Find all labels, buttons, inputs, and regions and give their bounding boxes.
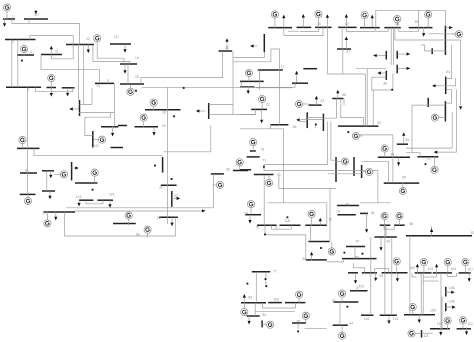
- wire: wire 12-16b: [83, 45, 85, 105]
- svg-text:111: 111: [424, 334, 429, 338]
- generator G100: [393, 258, 400, 273]
- load bus101 arrow: [387, 317, 390, 325]
- generator G28: [125, 212, 132, 225]
- load bus1 arrow: [3, 18, 6, 27]
- bus 15: [120, 83, 144, 85]
- svg-text:79: 79: [336, 210, 340, 214]
- wire: wire 23-64b: [328, 173, 362, 175]
- bus 106 (vertical): [445, 287, 447, 297]
- bus 111b (vertical): [421, 330, 423, 337]
- bus 61 (vertical): [444, 26, 446, 55]
- bus 49: [375, 236, 397, 238]
- load bus19 arrow: [152, 127, 155, 136]
- junction dot: [425, 163, 427, 165]
- generator G94: [339, 325, 346, 339]
- bus 95: [362, 272, 377, 274]
- bus 56: [384, 27, 401, 29]
- wire: wire 23-69: [331, 122, 336, 161]
- generator G76: [308, 210, 315, 225]
- bus 85: [285, 302, 306, 304]
- generator G24: [236, 159, 243, 170]
- load bus100L arrow: [430, 228, 433, 236]
- generator G111: [93, 136, 105, 143]
- wire: wire 106-110: [441, 297, 443, 329]
- wire: link 75-118: [272, 228, 292, 230]
- svg-text:80: 80: [302, 257, 306, 261]
- wire: wire 63 down: [411, 105, 413, 153]
- load bus30b arrow: [49, 171, 52, 179]
- wire: wire right h2: [437, 151, 456, 153]
- wire: stub G31: [147, 234, 149, 236]
- wire: wire 25-23 b: [301, 119, 324, 121]
- svg-text:92: 92: [332, 299, 336, 303]
- wire: wire right v1: [451, 112, 453, 148]
- generator G68: [352, 132, 362, 139]
- wire: wire 16v box: [85, 116, 111, 118]
- bus 104: [433, 272, 452, 274]
- svg-text:4: 4: [30, 50, 32, 54]
- wire: link 96-100: [375, 268, 389, 270]
- bus 77: [252, 271, 270, 273]
- wire: wire 23-24 long: [264, 122, 327, 171]
- generator G110: [444, 317, 451, 329]
- wire: link 83-85 b: [255, 310, 295, 312]
- bus 12: [66, 44, 94, 46]
- wire: link 42 v: [345, 27, 347, 31]
- generator G16: [245, 69, 252, 81]
- wire: wire 97-96: [354, 247, 356, 259]
- load bus112 arrow: [465, 327, 468, 335]
- svg-text:37: 37: [346, 50, 350, 54]
- svg-text:15: 15: [135, 75, 139, 79]
- wire: wire 16v-7 h: [79, 112, 115, 114]
- bus 30: [338, 125, 378, 127]
- generator G4: [20, 45, 27, 55]
- wire: stub 108: [446, 306, 452, 308]
- svg-text:101: 101: [393, 317, 399, 321]
- junction dot: [263, 166, 265, 168]
- bus 115v (vertical): [208, 103, 210, 119]
- generator G86: [302, 312, 309, 323]
- load bus37 arrow: [345, 36, 348, 49]
- bus 118: [280, 224, 301, 226]
- wire: wire 115-30v: [233, 52, 264, 58]
- svg-text:81: 81: [371, 211, 375, 215]
- load bus104 arrow: [435, 264, 438, 274]
- flow arrow 3 arrow: [434, 151, 438, 154]
- svg-text:49: 49: [386, 239, 390, 243]
- wire: wire 64-65 v: [377, 171, 379, 203]
- wire: wire 68-30: [341, 99, 364, 127]
- junction dot: [135, 90, 137, 92]
- load bus23 arrow: [315, 96, 318, 106]
- wire: wire 25 left: [300, 121, 307, 123]
- bus 115: [97, 199, 113, 201]
- wire: wire G68-35: [360, 134, 393, 136]
- svg-text:111: 111: [94, 144, 99, 148]
- wire: wire 64t load h: [437, 78, 456, 86]
- generator G6: [19, 136, 26, 148]
- load bus32 arrow: [172, 197, 181, 200]
- wire: wire 40-21: [300, 27, 318, 31]
- load bus68 arrow: [336, 90, 339, 100]
- wire: wire 111b right: [422, 332, 433, 334]
- bus 59: [409, 27, 433, 29]
- load bus36 arrow: [397, 157, 400, 166]
- bus 101: [380, 314, 397, 316]
- junction dot: [21, 60, 23, 62]
- svg-text:105: 105: [430, 309, 436, 313]
- load bus105 arrow: [418, 315, 421, 324]
- load bus40 arrow: [326, 14, 329, 18]
- bus 21: [297, 26, 312, 28]
- bus 65: [384, 182, 420, 184]
- bus 78: [337, 205, 359, 207]
- svg-text:64: 64: [446, 70, 450, 74]
- wire: wire 86 right: [305, 327, 327, 329]
- bus 66a: [380, 224, 391, 226]
- generator G66a: [381, 212, 388, 225]
- bus 100L: [406, 235, 472, 237]
- bus 99: [306, 259, 327, 261]
- wire: wire 103-105 b: [422, 273, 424, 315]
- svg-text:103: 103: [428, 267, 434, 271]
- wire: wire 56 vb: [393, 28, 395, 65]
- wire: wire 30 v2: [364, 74, 366, 126]
- junction dot: [265, 278, 267, 280]
- svg-text:78: 78: [345, 203, 349, 207]
- bus 2: [5, 39, 36, 41]
- wire: wire 92-94: [339, 302, 341, 325]
- bus 83: [241, 302, 266, 304]
- load bus29b arrow: [170, 218, 173, 227]
- bus 14: [120, 63, 137, 65]
- generator G63: [431, 114, 445, 121]
- wire: wire 74-76: [268, 202, 327, 204]
- wire: wire 54-30: [372, 90, 374, 126]
- bus 73: [250, 150, 256, 152]
- load bus95 arrow: [374, 273, 377, 282]
- generator G56: [394, 16, 401, 28]
- svg-text:96: 96: [355, 255, 359, 259]
- bus 105: [404, 314, 435, 316]
- junction dot: [315, 124, 317, 126]
- wire: wire 68-23: [323, 99, 336, 119]
- wire: wire 20-40: [284, 27, 323, 35]
- wire: stub 86: [297, 323, 299, 329]
- flow arrow arrow: [202, 209, 206, 212]
- svg-text:32: 32: [174, 194, 178, 198]
- svg-text:118: 118: [273, 297, 279, 301]
- wire: wire 64 corner: [445, 90, 451, 103]
- svg-text:104: 104: [451, 267, 457, 271]
- bus 19: [135, 126, 159, 128]
- wire: wire 36-62: [406, 153, 420, 157]
- svg-text:115: 115: [109, 193, 115, 197]
- wire: wire 65 h: [360, 202, 390, 204]
- generator G80: [328, 242, 335, 255]
- wire: wire 30 v3: [366, 69, 368, 126]
- wire: wire 70-69: [279, 175, 336, 189]
- load bus100 arrow: [396, 273, 399, 282]
- wire: wire 12-16: [77, 45, 79, 101]
- bus 51 (vertical): [385, 71, 387, 80]
- svg-text:14: 14: [135, 56, 139, 60]
- load bus81 arrow: [365, 223, 368, 233]
- wire: wire 114 v: [210, 126, 212, 152]
- wire: link 66a v: [383, 225, 385, 229]
- bus 11: [41, 54, 62, 56]
- svg-text:100: 100: [410, 266, 416, 270]
- wire: link 75 v: [271, 225, 273, 229]
- wire: wire 2-3: [11, 40, 13, 88]
- load bus107 arrow: [468, 272, 471, 282]
- load bus18 arrow: [196, 109, 206, 112]
- bus 34: [397, 143, 408, 145]
- svg-text:102: 102: [364, 317, 370, 321]
- svg-text:3: 3: [27, 88, 29, 92]
- generator G85: [296, 291, 303, 303]
- svg-text:74: 74: [244, 212, 248, 216]
- svg-text:66: 66: [410, 222, 414, 226]
- bus 114b: [233, 170, 248, 172]
- junction dot: [297, 331, 299, 333]
- bus 102: [361, 314, 374, 316]
- bus 74: [245, 214, 261, 216]
- bus 118b: [268, 302, 282, 304]
- load bus54 arrow: [371, 15, 374, 28]
- load bus64t arrow: [432, 84, 441, 87]
- bus 77v (vertical): [353, 157, 355, 176]
- svg-text:19: 19: [162, 124, 166, 128]
- bus 92: [333, 301, 358, 303]
- wire: wire long vertical 15-29: [166, 87, 168, 224]
- wire: wire 56 va: [390, 28, 392, 65]
- load bus90 arrow: [354, 273, 357, 284]
- generator G5: [48, 74, 55, 87]
- generator G92: [339, 290, 346, 302]
- wire: link 95 v2: [364, 268, 366, 273]
- wire: wire 17-19h: [256, 87, 292, 89]
- wire: wire 30b-38b: [46, 171, 48, 191]
- bus 42: [338, 26, 356, 28]
- wire: stub 101a: [356, 287, 358, 291]
- wire: wire 16b-17: [259, 70, 261, 81]
- wire: wire 54 box h: [376, 9, 419, 11]
- bus 114: [211, 173, 224, 175]
- bus 5: [47, 87, 57, 89]
- generator G40: [315, 11, 322, 28]
- load bus21 arrow: [302, 14, 305, 28]
- generator G61: [452, 31, 462, 38]
- wire: wire 59 box v: [418, 10, 420, 27]
- generator G103: [420, 259, 427, 273]
- bus 3: [6, 86, 41, 88]
- svg-text:17: 17: [281, 64, 285, 68]
- bus 12v (vertical): [71, 162, 73, 181]
- svg-text:73: 73: [260, 148, 264, 152]
- bus 69 (vertical): [335, 157, 337, 182]
- junction dot: [347, 131, 349, 133]
- junction dot: [247, 283, 249, 285]
- junction dot: [154, 165, 156, 167]
- generator G74: [247, 201, 254, 215]
- svg-text:108: 108: [449, 300, 455, 304]
- generator G10: [54, 171, 67, 178]
- wire: link 42-54: [346, 31, 375, 33]
- wire: wire 15-33: [141, 51, 223, 84]
- svg-text:107: 107: [467, 268, 473, 272]
- generator G12: [94, 35, 101, 45]
- load bus5 arrow: [50, 87, 53, 97]
- wire: wire 16v-111: [85, 117, 93, 135]
- load bus106 arrow: [445, 291, 455, 294]
- generator G18: [150, 99, 157, 110]
- wire: wire 75-99: [265, 225, 306, 260]
- wire: wire 66-101: [384, 225, 386, 315]
- wire: wire right v3: [460, 40, 462, 105]
- wire: wire 77 stub: [265, 272, 267, 287]
- junction dot: [264, 234, 266, 236]
- wire: wire 24-77: [264, 170, 378, 172]
- bus 20: [118, 125, 127, 127]
- wire: wire 103-105 a: [420, 273, 422, 315]
- bus 100: [382, 272, 408, 274]
- wire: wire 76-80: [310, 225, 312, 241]
- svg-text:12: 12: [86, 37, 90, 41]
- svg-text:112: 112: [467, 322, 473, 326]
- generator G65: [399, 182, 406, 194]
- wire: stub 25: [315, 124, 317, 128]
- bus 30v (vertical): [263, 34, 265, 52]
- bus 31: [161, 184, 177, 186]
- bus 63t (vertical): [431, 48, 433, 54]
- svg-text:33: 33: [225, 46, 229, 50]
- wire: wire 63t-64t: [425, 50, 446, 52]
- wire: wire 76 stub: [326, 203, 328, 225]
- load bus83 arrow: [243, 294, 246, 304]
- wire: wire 33-115: [232, 51, 235, 115]
- generator G70: [265, 174, 272, 186]
- bus 4: [17, 54, 34, 56]
- wire: stub 13: [107, 79, 109, 83]
- wire: wire 2-12: [30, 36, 73, 45]
- generator G104: [444, 259, 451, 273]
- svg-text:29: 29: [157, 216, 161, 220]
- generator G62: [431, 156, 438, 173]
- wire: wire 22 left: [240, 114, 256, 116]
- load bus76 arrow: [319, 218, 322, 226]
- wire: stub 117: [28, 19, 30, 23]
- wire: wire 13-7 v: [114, 83, 116, 126]
- wire: wire 27-114 b: [75, 210, 204, 212]
- bus 36: [378, 156, 410, 158]
- wire: wire 37 down: [342, 49, 344, 74]
- wire: link 66b v: [393, 225, 395, 229]
- wire: wire 49-102: [370, 237, 372, 315]
- svg-text:27: 27: [43, 212, 47, 216]
- generator G36: [381, 145, 388, 157]
- bus 84: [247, 315, 260, 317]
- wire: link 54 v: [374, 28, 376, 32]
- svg-text:77: 77: [273, 270, 277, 274]
- generator G107: [462, 259, 469, 273]
- wire: link 100 v: [388, 269, 390, 273]
- junction dot: [183, 87, 185, 89]
- svg-text:61: 61: [427, 156, 431, 160]
- bus 63 (vertical): [427, 98, 429, 107]
- svg-text:30: 30: [377, 121, 381, 125]
- load bus113 arrow: [77, 200, 80, 207]
- generator G59: [425, 11, 432, 28]
- bus 90: [348, 272, 358, 274]
- svg-text:86: 86: [297, 320, 301, 324]
- load bus38b arrow: [48, 191, 51, 200]
- load bus34 arrow: [402, 132, 405, 144]
- junction dot: [344, 252, 346, 254]
- svg-text:70: 70: [277, 173, 281, 177]
- wire: link 113-115: [86, 200, 103, 204]
- wire: link 103-104: [423, 276, 436, 278]
- load bus115 arrow: [108, 200, 111, 208]
- generator G112: [459, 317, 466, 329]
- generator G19: [140, 114, 147, 127]
- bus 25 (vertical): [306, 112, 308, 128]
- wire: wire 26 stub: [271, 125, 284, 129]
- bus 111 (vertical): [92, 131, 94, 148]
- wire: wire 77-83: [255, 272, 257, 303]
- junction dot: [92, 189, 94, 191]
- load bus42 arrow: [345, 14, 348, 28]
- svg-text:26: 26: [293, 125, 297, 129]
- wire: wire 14-15: [127, 64, 129, 84]
- bus 66b: [394, 224, 405, 226]
- bus 18c: [303, 68, 317, 70]
- wire: wire 20 stub: [283, 28, 285, 36]
- wire: wire 115v a: [209, 103, 233, 105]
- svg-text:18: 18: [162, 111, 166, 115]
- wire: wire 114 stem: [212, 174, 214, 208]
- svg-text:23: 23: [320, 99, 324, 103]
- wire: wire 15-19: [142, 83, 295, 87]
- bus 22: [251, 108, 267, 110]
- wire: wire 17 down: [259, 70, 261, 90]
- svg-text:76: 76: [328, 218, 332, 222]
- wire: wire 59-61: [419, 10, 446, 25]
- bus 29 (vertical): [162, 157, 164, 173]
- wire: wire 29-114: [163, 151, 210, 153]
- generator G111b: [408, 330, 421, 337]
- bus 16b: [240, 80, 264, 82]
- wire: link 83 v: [262, 303, 264, 308]
- bus 64b (vertical): [361, 165, 363, 178]
- wire: wire 34-right: [406, 147, 452, 149]
- bus 108 (vertical): [445, 303, 447, 311]
- svg-text:34: 34: [405, 138, 409, 142]
- wire: link 104-107: [447, 276, 456, 278]
- bus 75: [257, 224, 277, 226]
- wire: wire 3-5-6 bracket: [35, 87, 72, 92]
- bus 110: [430, 328, 450, 330]
- bus 30b: [42, 170, 54, 172]
- svg-text:31: 31: [159, 185, 163, 189]
- wire: wire 26-75: [282, 129, 284, 203]
- wire: link 95 v: [374, 269, 376, 273]
- junction dot: [287, 216, 289, 218]
- bus 97: [346, 246, 365, 248]
- wire: wire 25-23 a: [307, 117, 323, 119]
- wire: wire 12-14 a: [97, 45, 124, 65]
